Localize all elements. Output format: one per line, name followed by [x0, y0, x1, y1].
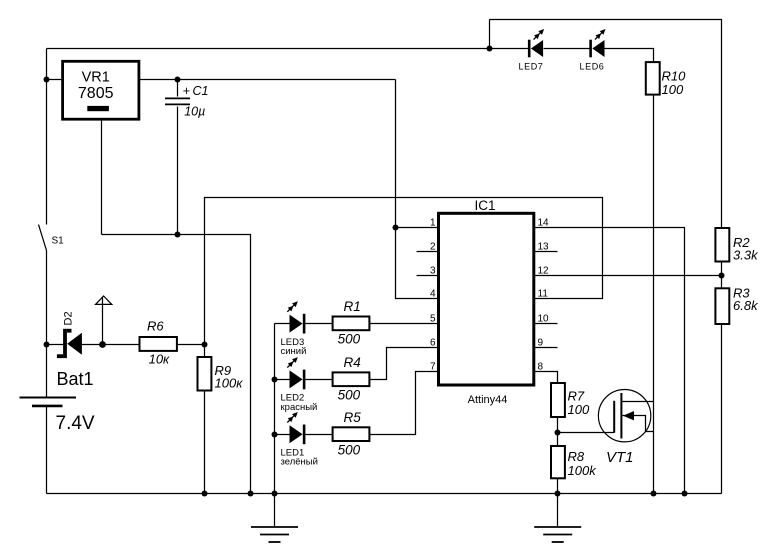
svg-text:Attiny44: Attiny44: [468, 394, 508, 406]
wire: R1 to IC pin 5: [370, 323, 439, 325]
svg-text:LED6: LED6: [580, 61, 605, 71]
wire: left rail from D2 node to battery plus plate: [46, 345, 48, 397]
wire: VR1 5V output to IC pin1 riser: [139, 79, 396, 81]
junction: VT1 source on ground rail: [651, 491, 657, 497]
junction: R6/R9/touch node: [202, 342, 208, 348]
wire: D2 anode to R6: [82, 344, 140, 346]
svg-text:S1: S1: [52, 236, 65, 247]
resistor R3: [715, 288, 729, 324]
battery Bat1: [20, 398, 77, 406]
junction: ground branch on bottom rail: [248, 491, 254, 497]
svg-text:6: 6: [430, 338, 436, 349]
svg-text:C1: C1: [193, 84, 209, 98]
svg-text:R5: R5: [344, 410, 362, 425]
junction: C1 negative tap: [175, 232, 181, 238]
LED LED2: [285, 355, 305, 389]
wire: LED anode bus: [274, 324, 276, 494]
wire: IC pin 12 to R2/R3 divider node: [534, 275, 722, 277]
svg-text:100: 100: [662, 82, 684, 97]
wire: C1 top lead: [177, 80, 179, 97]
resistor R7: [551, 383, 565, 417]
svg-text:100: 100: [568, 402, 590, 417]
wire: R8 to ground rail: [557, 479, 559, 494]
svg-text:7: 7: [430, 362, 436, 373]
wire: IC pin 9 stub: [534, 347, 558, 349]
svg-text:3.3k: 3.3k: [733, 248, 759, 263]
svg-text:9: 9: [538, 338, 544, 349]
wire: VR1 ground lead: [101, 120, 103, 235]
svg-text:6.8k: 6.8k: [733, 298, 759, 313]
resistor R5: [333, 427, 370, 441]
svg-text:500: 500: [338, 442, 361, 457]
svg-text:100к: 100к: [215, 376, 244, 391]
svg-text:+: +: [183, 84, 190, 98]
junction: LED7 branch node: [487, 46, 493, 52]
wire: LED6 cathode to R10: [605, 49, 654, 63]
resistor R4: [333, 372, 370, 386]
junction: pin 14 net on ground rail: [682, 491, 688, 497]
wire: top rail from battery rail to LED7 node: [47, 48, 490, 50]
svg-text:10к: 10к: [149, 352, 170, 367]
wire: LED7 anode lead: [490, 48, 529, 50]
svg-text:500: 500: [338, 388, 361, 403]
resistor R1: [333, 317, 370, 331]
wire: touch-sensor net, pin 11 up and over to R6/R9 node: [205, 198, 603, 345]
resistor R9: [198, 357, 212, 391]
svg-text:11: 11: [538, 288, 549, 299]
LED LED1: [285, 410, 305, 444]
ground symbol left: [251, 494, 298, 543]
junction: antenna tap: [99, 341, 106, 348]
switch S1: [39, 225, 47, 251]
resistor R10: [646, 62, 660, 95]
wire: bottom ground rail: [47, 493, 722, 495]
svg-text:R6: R6: [147, 319, 164, 334]
wire: riser from LED7 node to upper rail: [489, 20, 491, 49]
wire: bus to LED1 anode: [275, 434, 290, 436]
svg-text:2: 2: [430, 242, 436, 253]
IC IC1 body: [439, 213, 534, 385]
resistor R6: [140, 337, 177, 351]
svg-text:VT1: VT1: [606, 449, 634, 466]
svg-text:7.4V: 7.4V: [56, 413, 95, 434]
voltage regulator VR1: [63, 61, 139, 119]
junction: battery rail / VR1 input: [44, 77, 50, 83]
LED LED7: [528, 27, 546, 57]
svg-text:красный: красный: [281, 402, 318, 413]
wire: R10 bottom through VT1 drain/source to ground rail: [653, 95, 655, 494]
junction: C1 positive tap: [175, 77, 181, 83]
wire: R2 to R3 divider link: [721, 262, 723, 289]
wire: R3 to bottom ground rail: [721, 325, 723, 494]
wire: left battery rail, top rail down to switch S1: [46, 49, 48, 225]
svg-text:5: 5: [430, 314, 436, 325]
wire: R7 to R8 / gate node: [557, 418, 559, 447]
junction: gate node: [555, 430, 561, 436]
svg-text:12: 12: [538, 265, 550, 276]
wire: IC pin 3 stub: [417, 275, 439, 277]
transistor VT1 n-channel MOSFET: [598, 390, 653, 442]
svg-text:зелёный: зелёный: [281, 457, 318, 468]
junction: divider node R2/R3/pin12: [719, 273, 725, 279]
diode D2 zener: [57, 329, 82, 358]
svg-text:14: 14: [538, 218, 550, 229]
junction: LED bus on ground rail: [272, 491, 278, 497]
svg-text:500: 500: [338, 332, 361, 347]
svg-text:синий: синий: [281, 346, 307, 357]
ground symbol right: [534, 494, 581, 543]
svg-text:D2: D2: [63, 311, 75, 325]
wire: LED1 cathode to R5: [306, 434, 333, 436]
svg-text:R1: R1: [344, 299, 361, 314]
wire: VR1 input from battery rail: [47, 79, 63, 81]
junction: pin 1 tap on 5V riser: [393, 225, 399, 231]
wire: R4 to IC pin 6: [370, 348, 439, 380]
LED LED3: [285, 299, 305, 333]
wire: gate lead to VT1: [558, 432, 615, 434]
svg-text:100k: 100k: [568, 463, 598, 478]
wire: R9 top lead: [204, 345, 206, 358]
svg-text:R4: R4: [344, 355, 361, 370]
wire: left rail from S1 to D2 node: [46, 251, 48, 345]
svg-text:1: 1: [430, 218, 436, 229]
wire: R9 to bottom ground rail: [204, 391, 206, 494]
svg-text:IC1: IC1: [474, 198, 495, 213]
svg-text:4: 4: [430, 288, 436, 299]
LED LED6: [589, 27, 607, 57]
svg-text:Bat1: Bat1: [57, 369, 94, 389]
svg-text:8: 8: [538, 362, 544, 373]
wire: IC pin 8 to R7: [534, 372, 558, 384]
wire: IC pin 10 stub: [534, 323, 558, 325]
capacitor C1: [165, 98, 190, 104]
wire: R5 to IC pin 7: [370, 372, 439, 435]
wire: IC pin 14 to ground rail: [534, 228, 685, 494]
svg-text:13: 13: [538, 242, 550, 253]
wire: IC pin 13 stub: [534, 251, 558, 253]
junction: R9 on ground rail: [202, 491, 208, 497]
wire: bus to LED2 anode: [275, 379, 290, 381]
antenna touch electrode: [96, 296, 112, 345]
wire: upper rail over to R2: [490, 20, 722, 229]
svg-text:3: 3: [430, 265, 436, 276]
wire: C1 bottom lead: [177, 107, 179, 235]
junction: LED2 tap on bus: [272, 377, 278, 383]
resistor R2: [715, 228, 729, 262]
wire: VR1/C1 ground branch to bottom rail: [102, 235, 251, 494]
wire: battery minus to bottom ground rail: [46, 407, 48, 494]
wire: bus to LED3 anode: [275, 323, 290, 325]
wire: R6 to R9 node: [177, 344, 205, 346]
svg-text:R8: R8: [568, 449, 585, 464]
svg-text:VR1: VR1: [82, 70, 110, 86]
wire: IC pin 2 stub: [417, 251, 439, 253]
svg-text:7805: 7805: [78, 85, 114, 102]
svg-text:LED7: LED7: [519, 61, 544, 71]
resistor R8: [551, 446, 565, 478]
wire: LED3 cathode to R1: [306, 323, 333, 325]
junction: D2 node on battery rail: [44, 342, 50, 348]
wire: 5V riser down to IC pin 4: [396, 80, 439, 299]
wire: IC pin 1 stub: [396, 227, 439, 229]
wire: LED2 cathode to R4: [306, 379, 333, 381]
junction: R8 on ground rail: [555, 491, 561, 497]
svg-text:10: 10: [538, 314, 550, 325]
wire: D2 cathode lead from battery rail: [47, 344, 64, 346]
junction: LED1 tap on bus: [272, 432, 278, 438]
wire: LED7 cathode to LED6 anode: [544, 48, 590, 50]
svg-text:10µ: 10µ: [184, 105, 205, 119]
